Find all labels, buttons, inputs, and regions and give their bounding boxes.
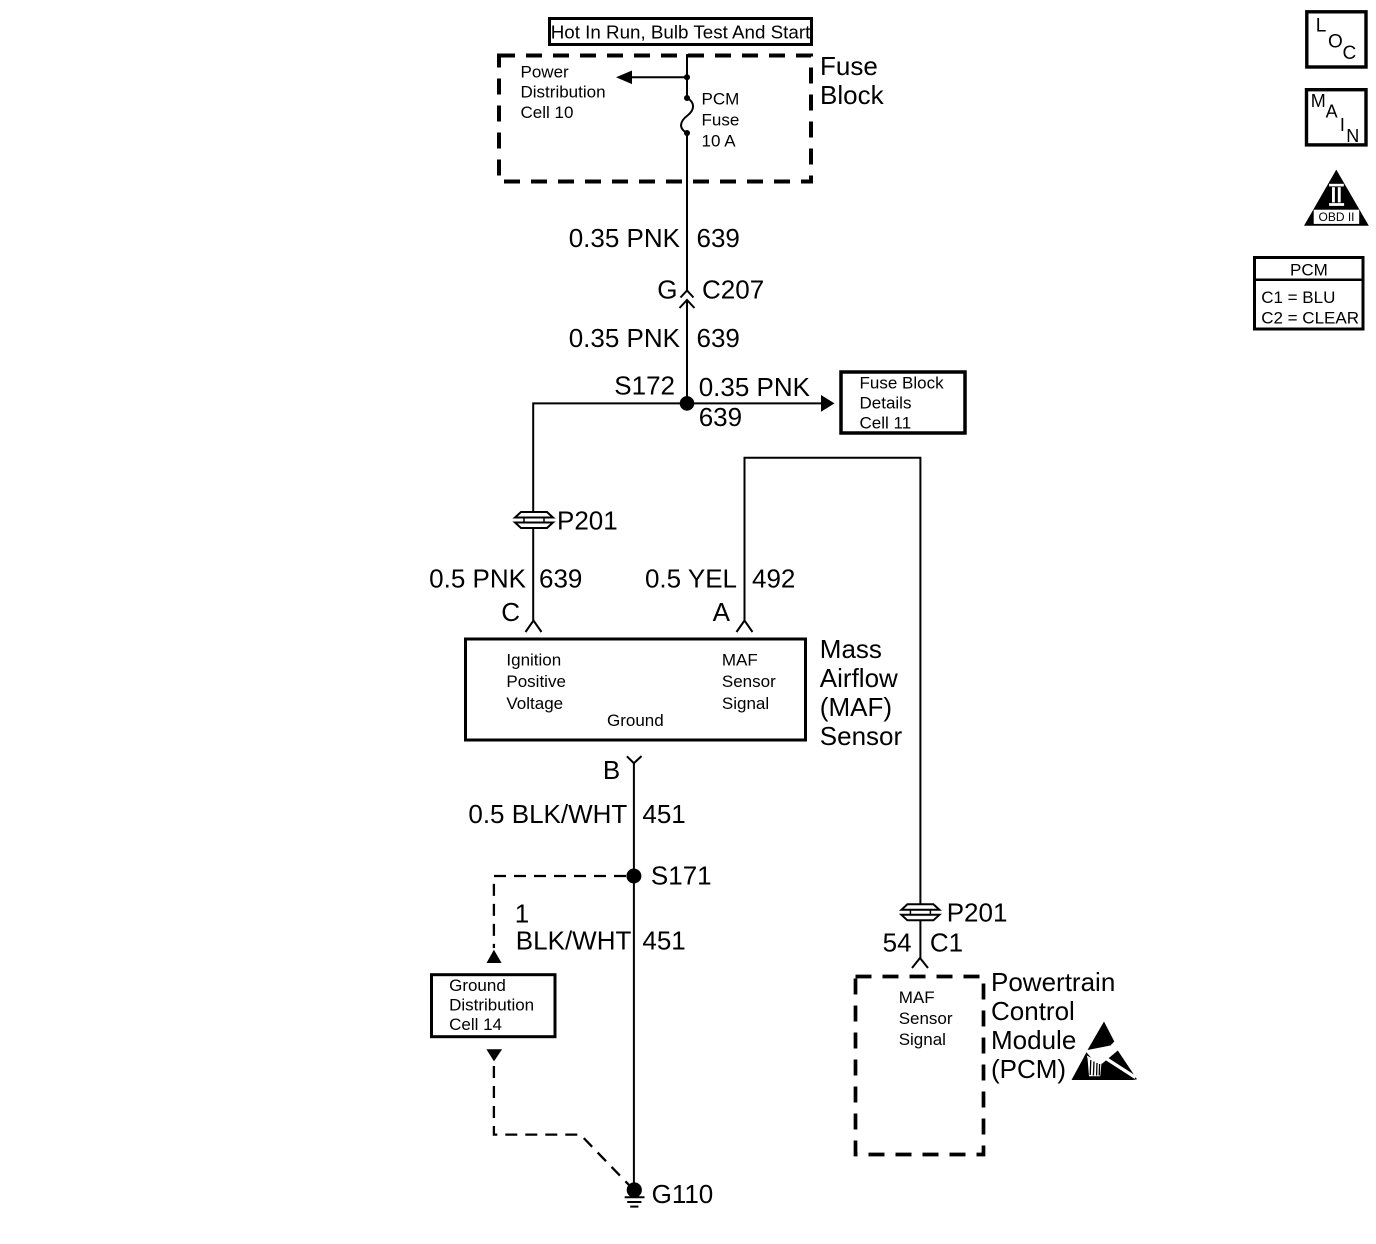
svg-text:Airflow: Airflow [820, 663, 898, 693]
svg-text:C1: C1 [930, 928, 963, 958]
ground distribution cell 14 box [432, 975, 556, 1037]
svg-text:Sensor: Sensor [722, 672, 776, 691]
svg-text:Fuse: Fuse [702, 111, 740, 130]
PCM dashed box [856, 977, 984, 1155]
svg-text:OBD II: OBD II [1318, 210, 1354, 224]
svg-text:Mass: Mass [820, 634, 882, 664]
OBD II symbol [1304, 170, 1369, 226]
svg-text:C1 = BLU: C1 = BLU [1261, 288, 1335, 307]
svg-text:Cell 14: Cell 14 [449, 1015, 502, 1034]
power distribution cell 10 label [521, 63, 606, 123]
terminal C (chevron) [501, 597, 541, 632]
wire: S171 to G110 [633, 876, 635, 1190]
svg-text:C: C [501, 597, 520, 627]
terminal C1 (chevron) [912, 958, 928, 968]
wire: B to S171 [633, 763, 635, 876]
wire: fuse to connector C207 [686, 133, 688, 291]
label: 0.5 BLK/WHT 451 [468, 799, 685, 829]
splice S172 [614, 371, 694, 411]
svg-text:C207: C207 [702, 275, 764, 305]
label: Mass Airflow (MAF) Sensor [820, 634, 903, 751]
svg-text:0.35 PNK: 0.35 PNK [569, 223, 681, 253]
svg-text:Powertrain: Powertrain [991, 967, 1115, 997]
svg-text:54: 54 [883, 928, 912, 958]
svg-text:Positive: Positive [506, 672, 566, 691]
label: 1 BLK/WHT 451 [515, 898, 686, 955]
svg-text:Module: Module [991, 1025, 1076, 1055]
grommet P201 (right) [901, 898, 1007, 928]
grommet P201 (left) [515, 506, 618, 536]
label: 0.5 PNK 639 [429, 564, 582, 594]
svg-text:Sensor: Sensor [820, 721, 903, 751]
fuse PCM Fuse 10 A [681, 95, 693, 136]
svg-text:BLK/WHT: BLK/WHT [516, 926, 632, 956]
label: G / C207 [657, 275, 764, 305]
svg-text:Fuse: Fuse [820, 51, 878, 81]
label: 0.5 YEL 492 [645, 564, 795, 594]
ESD symbol [1072, 1022, 1138, 1081]
label: Powertrain Control Module (PCM) [991, 967, 1115, 1084]
svg-text:PCM: PCM [1290, 261, 1328, 280]
svg-text:N: N [1346, 126, 1359, 146]
svg-text:MAF: MAF [899, 988, 935, 1007]
LOC symbol box [1307, 12, 1366, 67]
wire: feed from Hot-In-Run into fuse block [686, 54, 688, 98]
svg-text:C2 = CLEAR: C2 = CLEAR [1261, 308, 1359, 327]
svg-text:P201: P201 [947, 898, 1008, 928]
svg-text:B: B [603, 755, 620, 785]
svg-text:Signal: Signal [722, 694, 769, 713]
svg-text:0.5 YEL: 0.5 YEL [645, 564, 737, 594]
svg-text:0.5 BLK/WHT: 0.5 BLK/WHT [468, 799, 627, 829]
svg-text:S171: S171 [651, 861, 712, 891]
svg-text:L: L [1316, 16, 1327, 37]
svg-text:C: C [1343, 43, 1357, 64]
terminal A (chevron) [713, 597, 753, 632]
svg-text:M: M [1311, 91, 1326, 111]
label: MAF Sensor Signal (in PCM) [899, 988, 953, 1049]
fuse block details box [841, 372, 965, 433]
svg-text:Power: Power [521, 63, 570, 82]
svg-text:Block: Block [820, 80, 885, 110]
label: 0.35 PNK 639 (upper) [569, 223, 740, 253]
ground G110 [625, 1179, 714, 1209]
svg-text:Sensor: Sensor [899, 1009, 953, 1028]
svg-text:639: 639 [697, 223, 740, 253]
svg-text:Details: Details [860, 394, 912, 413]
svg-text:PCM: PCM [702, 90, 740, 109]
wire: P201 to MAF terminal C [532, 528, 534, 621]
svg-text:(PCM): (PCM) [991, 1054, 1066, 1084]
wire: S172 left branch [533, 403, 687, 512]
svg-text:Cell 11: Cell 11 [860, 414, 912, 433]
svg-text:S172: S172 [614, 371, 675, 401]
svg-text:I: I [1340, 115, 1345, 135]
dashed branch: S171 to ground distribution (with up arrow) [487, 876, 627, 963]
svg-text:Distribution: Distribution [521, 83, 606, 102]
svg-text:451: 451 [642, 926, 685, 956]
svg-text:A: A [713, 597, 731, 627]
svg-text:MAF: MAF [722, 650, 758, 669]
svg-text:Fuse Block: Fuse Block [860, 374, 945, 393]
connector C207 (fork and arrow) [680, 291, 695, 397]
MAIN symbol box [1307, 90, 1367, 146]
svg-text:O: O [1328, 31, 1343, 52]
svg-text:1: 1 [515, 898, 529, 928]
label: 0.35 PNK / 639 at arrow [699, 372, 811, 432]
wire: P201 to PCM pin 54 [919, 920, 921, 958]
terminal B (Y fork) [603, 755, 642, 785]
svg-text:Ground: Ground [607, 711, 664, 730]
svg-text:Distribution: Distribution [449, 995, 534, 1014]
node: branch junction dot [684, 74, 690, 80]
svg-text:639: 639 [699, 402, 742, 432]
svg-text:Signal: Signal [899, 1030, 946, 1049]
fuse block dashed box [499, 56, 811, 182]
wire: MAF A to PCM (yellow signal run) [745, 458, 921, 904]
svg-text:451: 451 [642, 799, 685, 829]
label: PCM Fuse 10 A [702, 90, 740, 151]
svg-text:(MAF): (MAF) [820, 692, 892, 722]
PCM connector legend box [1253, 258, 1365, 330]
dashed branch: ground distribution to G110 (with down arrow) [486, 1049, 629, 1185]
splice S171 [626, 861, 711, 891]
svg-text:10 A: 10 A [702, 132, 737, 151]
svg-text:Control: Control [991, 996, 1075, 1026]
svg-text:639: 639 [697, 323, 740, 353]
svg-text:Ground: Ground [449, 976, 506, 995]
svg-text:G: G [657, 275, 677, 305]
svg-text:Voltage: Voltage [506, 694, 563, 713]
pin label: 54 / C1 [883, 928, 963, 958]
svg-text:492: 492 [752, 564, 795, 594]
svg-text:G110: G110 [652, 1179, 714, 1209]
power feed label box "Hot In Run, Bulb Test And Start" [550, 19, 812, 45]
svg-text:Cell 10: Cell 10 [521, 103, 574, 122]
fuse block label [820, 51, 885, 110]
svg-text:Hot In Run, Bulb Test And Star: Hot In Run, Bulb Test And Start [551, 22, 811, 43]
wire: branch to power distribution with arrow [616, 71, 687, 85]
svg-text:0.35 PNK: 0.35 PNK [569, 323, 681, 353]
svg-text:639: 639 [539, 564, 582, 594]
MAF sensor box [466, 639, 806, 740]
svg-text:Ignition: Ignition [506, 650, 561, 669]
svg-text:0.5 PNK: 0.5 PNK [429, 564, 526, 594]
wire: S172 arrow to fuse block details [687, 395, 835, 412]
label: 0.35 PNK 639 (lower) [569, 323, 740, 353]
svg-text:P201: P201 [557, 506, 618, 536]
svg-text:0.35 PNK: 0.35 PNK [699, 372, 811, 402]
svg-text:A: A [1326, 102, 1338, 122]
